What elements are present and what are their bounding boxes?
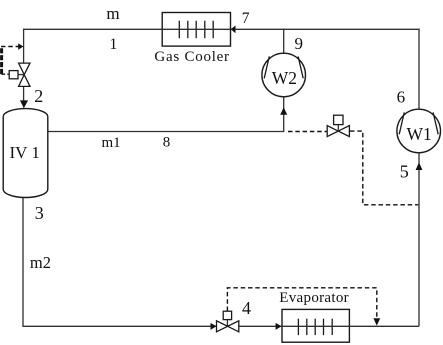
wire: tank bottom to bottom header <box>22 196 24 326</box>
node label m (mass flow) <box>106 4 119 23</box>
wire: top header from node 1 corner to right corner <box>24 28 420 30</box>
valve V4 actuator square <box>223 311 231 319</box>
svg-text:1: 1 <box>109 36 117 53</box>
arrow on bottom header before valve 4 (flow right) <box>211 323 217 330</box>
label IV 1 <box>10 143 40 162</box>
gas cooler box <box>162 13 230 47</box>
svg-text:Gas Cooler: Gas Cooler <box>154 49 229 65</box>
node 4 <box>242 298 251 318</box>
valve V2 body (vertical bowtie) <box>19 63 30 86</box>
dashed bypass line valve to W1 suction <box>350 131 418 205</box>
stem bypass valve actuator <box>337 125 339 131</box>
node 9 <box>295 34 304 53</box>
svg-text:8: 8 <box>163 135 171 151</box>
svg-text:m: m <box>106 4 119 23</box>
stem valve 4 actuator <box>226 320 228 326</box>
node 3 <box>35 203 44 223</box>
arrow on dashed control line onto evaporator outlet (pointing down) <box>373 318 380 325</box>
tank IV 1 (flash tank / intermediate vessel) <box>3 109 48 198</box>
svg-text:9: 9 <box>295 34 304 53</box>
wire: tank outlet m1/8 to junction under W2 <box>48 131 285 133</box>
label Evaporator <box>279 290 349 306</box>
node 7 <box>242 10 250 27</box>
wire: compressor W2 suction vertical to node 8 junction <box>283 97 285 132</box>
node label m2 <box>30 253 51 272</box>
arrow into gas cooler (flow left) node 7 <box>231 26 236 34</box>
svg-text:5: 5 <box>400 161 409 181</box>
wire: bottom header from tank leg to right vertical <box>22 325 419 327</box>
wire: compressor W1 suction vertical to bottom header <box>418 153 420 327</box>
stem from actuator to valve 2 body <box>18 74 24 76</box>
arrow into compressor W1 suction (flow up) node 5 <box>416 162 423 170</box>
arrow on dashed control line (pointing right into left vertical) <box>18 43 23 49</box>
node 8 <box>163 135 171 151</box>
node 2 <box>34 86 43 106</box>
compressor W1 circle <box>397 109 441 153</box>
dashed bypass line from node 8 junction to valve <box>288 131 327 133</box>
evaporator box <box>282 309 349 342</box>
arrow into evaporator (flow right) <box>276 323 282 330</box>
node label m1 <box>102 135 121 151</box>
bypass valve body (horizontal bowtie) <box>327 126 349 137</box>
compressor W2 circle <box>262 53 306 97</box>
svg-text:6: 6 <box>397 88 406 107</box>
label W1 <box>407 124 432 144</box>
svg-text:m2: m2 <box>30 253 51 272</box>
wire: valve 2 outlet down to tank IV 1 <box>23 86 25 107</box>
svg-text:W2: W2 <box>272 68 297 88</box>
wire: right vertical from top corner down to compressor W1 <box>418 29 420 110</box>
dashed control line from valve 4 up and over to evaporator outlet <box>227 288 376 320</box>
dashed link from sensing line to valve 2 actuator <box>2 73 9 75</box>
svg-text:Evaporator: Evaporator <box>279 290 349 306</box>
svg-text:2: 2 <box>34 86 43 106</box>
wire: compressor W2 discharge vertical to top header <box>283 29 285 54</box>
arrow into tank IV 1 (flow down) <box>20 100 28 108</box>
wire: left vertical from top corner down to valve 2 <box>23 29 25 64</box>
arrow into compressor W2 suction (flow up) <box>280 107 287 115</box>
svg-text:m1: m1 <box>102 135 121 151</box>
gas cooler hatch ticks <box>179 21 213 39</box>
svg-text:IV 1: IV 1 <box>10 143 40 162</box>
evaporator hatch ticks <box>298 319 332 335</box>
node 6 <box>397 88 406 107</box>
svg-text:7: 7 <box>242 10 250 27</box>
node 1 <box>109 36 117 53</box>
bold dashed sensing line on left edge <box>0 48 3 74</box>
label Gas Cooler <box>154 49 229 65</box>
svg-text:W1: W1 <box>407 124 432 144</box>
bypass valve actuator square <box>334 115 343 124</box>
valve V4 body (horizontal bowtie) <box>217 321 239 332</box>
node 5 <box>400 161 409 181</box>
svg-text:3: 3 <box>35 203 44 223</box>
dashed control line into valve 2 from left edge <box>1 46 19 48</box>
svg-text:4: 4 <box>242 298 251 318</box>
label W2 <box>272 68 297 88</box>
valve V2 actuator square <box>9 71 18 79</box>
